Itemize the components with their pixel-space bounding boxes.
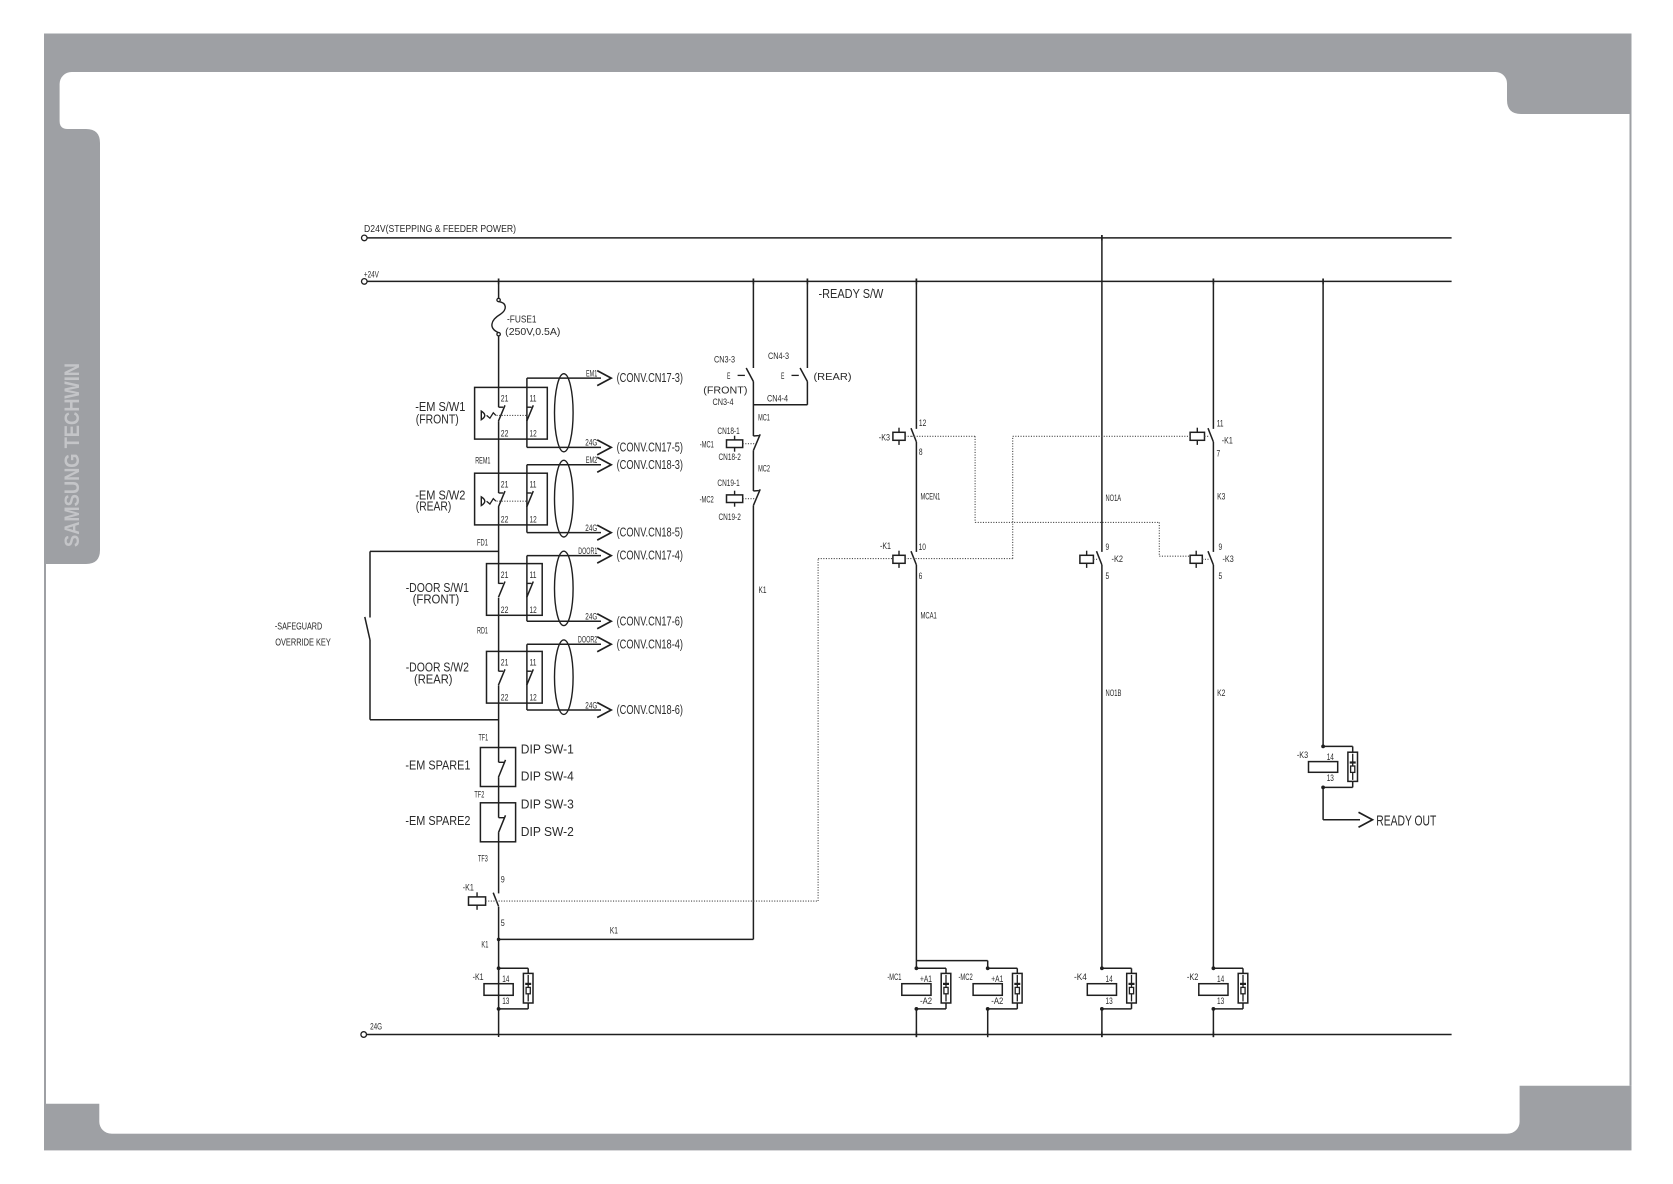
svg-text:MC2: MC2	[758, 464, 770, 475]
wire coil -K2 suppressor branch	[1213, 967, 1243, 969]
svg-text:21: 21	[501, 658, 509, 669]
connector arrow (CONV.CN17-5)	[597, 440, 611, 455]
svg-text:DIP SW-1: DIP SW-1	[521, 742, 574, 756]
svg-text:9: 9	[501, 874, 505, 885]
wire safeguard bracket top	[370, 550, 499, 552]
relay coil -K4	[1100, 966, 1104, 970]
svg-text:TF3: TF3	[478, 853, 488, 864]
svg-text:9: 9	[1219, 542, 1223, 553]
switch EM S/W2 contact 11-12	[527, 492, 532, 494]
node K1 junction to hold-in wire	[497, 938, 501, 942]
page frame top-right tab	[1496, 70, 1632, 114]
svg-text:CN3-4: CN3-4	[713, 397, 734, 408]
svg-text:11: 11	[530, 479, 537, 490]
surge suppressor for -K3	[1348, 752, 1358, 781]
svg-text:14: 14	[1217, 974, 1224, 985]
svg-text:21: 21	[501, 394, 509, 405]
wire main safety chain segments	[498, 421, 500, 493]
wire coil -MC2 suppressor branch	[988, 967, 1018, 969]
svg-text:-K1: -K1	[473, 972, 484, 983]
svg-text:+A1: +A1	[991, 974, 1003, 985]
wire coil -MC1 suppressor branch	[916, 967, 946, 969]
surge suppressor for -MC1	[941, 973, 951, 1003]
dashed linkage K1 contacts	[486, 900, 818, 902]
wire ready front drop	[752, 279, 754, 369]
switch DOOR S/W2 contact 11-12	[527, 670, 532, 672]
svg-text:CN18-1: CN18-1	[717, 426, 739, 437]
svg-text:24G: 24G	[585, 438, 597, 449]
svg-text:-A2: -A2	[920, 996, 932, 1007]
svg-text:CN19-1: CN19-1	[717, 478, 739, 489]
svg-text:12: 12	[530, 693, 537, 704]
svg-text:TF2: TF2	[474, 789, 484, 800]
surge suppressor for -K1	[523, 973, 533, 1003]
connector arrow (CONV.CN18-4)	[597, 637, 611, 652]
svg-text:-K4: -K4	[1074, 972, 1087, 983]
svg-text:12: 12	[919, 418, 926, 429]
svg-text:K1: K1	[759, 585, 767, 596]
svg-text:(CONV.CN18-4): (CONV.CN18-4)	[617, 637, 683, 651]
switch EM S/W1 body box	[475, 387, 548, 439]
switch EM S/W1 operator symbol and link	[481, 411, 485, 420]
wire DOOR S/W1 connector line 24G	[527, 620, 601, 622]
svg-text:CN19-2: CN19-2	[719, 512, 741, 523]
wire ready rear drop	[806, 279, 808, 369]
wire READY column from +24V	[1322, 279, 1324, 747]
surge suppressor for -K2	[1238, 973, 1248, 1003]
svg-text:MCEN1: MCEN1	[921, 491, 941, 502]
safeguard override key switch	[369, 551, 371, 617]
svg-text:-MC2: -MC2	[700, 494, 714, 505]
svg-text:READY OUT: READY OUT	[1376, 813, 1436, 829]
svg-text:21: 21	[501, 570, 509, 581]
wire MC coils to ground rail	[915, 1009, 917, 1037]
svg-text:-K2: -K2	[1112, 554, 1124, 565]
svg-text:DIP SW-3: DIP SW-3	[521, 798, 574, 812]
wire READY OUT	[1322, 787, 1324, 819]
wire K3 column from +24V	[1212, 279, 1214, 429]
svg-text:CN4-3: CN4-3	[768, 351, 789, 362]
switch EM S/W2 body box	[475, 473, 548, 525]
wire coil -K4 suppressor branch	[1102, 967, 1132, 969]
svg-text:5: 5	[1219, 571, 1223, 582]
connector arrow (CONV.CN17-4)	[597, 548, 611, 563]
svg-text:NO1A: NO1A	[1106, 493, 1122, 504]
svg-text:DOOR1: DOOR1	[578, 546, 597, 557]
svg-text:9: 9	[1106, 542, 1110, 553]
relay coil -K3	[1321, 745, 1325, 749]
connector arrow (CONV.CN17-3)	[597, 371, 611, 386]
svg-text:22: 22	[501, 693, 509, 704]
svg-text:-EM SPARE2: -EM SPARE2	[405, 814, 470, 828]
svg-text:12: 12	[530, 605, 537, 616]
wire ready rear join	[753, 404, 807, 406]
svg-text:(FRONT): (FRONT)	[413, 593, 460, 607]
svg-text:13: 13	[1327, 773, 1334, 784]
wire EM S/W2 connector line 24G	[527, 532, 601, 534]
svg-text:DIP SW-4: DIP SW-4	[521, 770, 574, 784]
svg-text:EM1: EM1	[586, 368, 597, 379]
page frame bottom-right tab	[1508, 1086, 1632, 1137]
wire DOOR S/W2 connector line DOOR2	[526, 644, 528, 710]
switch EM S/W2 contact 21-22	[499, 492, 504, 494]
svg-text:DOOR2: DOOR2	[578, 635, 597, 646]
wire MCA1 branch to MC2	[916, 960, 987, 962]
relay coil -MC2	[986, 966, 990, 970]
wire K1 column	[752, 506, 754, 940]
svg-text:(REAR): (REAR)	[814, 371, 852, 383]
dashed linkage K3 contacts	[912, 435, 976, 437]
switch DOOR S/W1 contact 21-22	[499, 582, 504, 584]
svg-text:(CONV.CN18-6): (CONV.CN18-6)	[617, 703, 683, 717]
svg-text:OVERRIDE KEY: OVERRIDE KEY	[275, 637, 331, 648]
wire EM S/W1 connector line 24G	[527, 446, 601, 448]
cable ellipse EM S/W1	[555, 374, 574, 452]
wire safeguard bracket bottom	[370, 719, 499, 721]
connector arrow (CONV.CN18-3)	[597, 457, 611, 472]
wire coil -K1 suppressor branch	[499, 967, 529, 969]
svg-text:NO1B: NO1B	[1106, 688, 1122, 699]
svg-text:K1: K1	[610, 926, 618, 937]
svg-text:5: 5	[1106, 571, 1110, 582]
contactor aux contact MC2 CN19	[753, 490, 759, 492]
connector arrow READY OUT	[1359, 812, 1373, 827]
svg-text:REM1: REM1	[475, 456, 490, 467]
svg-text:11: 11	[1217, 418, 1224, 429]
page frame left tab stem + SAMSUNG tab + left border	[44, 70, 111, 1137]
wire EM S/W2 connector line EM2	[526, 465, 528, 533]
svg-text:-EM SPARE1: -EM SPARE1	[405, 759, 470, 773]
svg-text:-K1: -K1	[1222, 436, 1233, 447]
svg-text:13: 13	[1106, 996, 1113, 1007]
svg-text:24G: 24G	[370, 1021, 382, 1032]
svg-text:-K2: -K2	[1187, 972, 1199, 983]
svg-text:-FUSE1: -FUSE1	[507, 313, 537, 325]
wire DOOR S/W1 connector line DOOR1	[526, 556, 528, 622]
svg-text:-READY S/W: -READY S/W	[819, 287, 884, 301]
svg-text:MCA1: MCA1	[921, 611, 937, 622]
svg-text:8: 8	[919, 447, 923, 458]
svg-text:CN3-3: CN3-3	[714, 355, 735, 366]
svg-text:-K1: -K1	[463, 883, 474, 894]
svg-text:21: 21	[501, 479, 509, 490]
switch EM S/W1 contact 21-22	[499, 406, 504, 408]
svg-text:13: 13	[502, 996, 509, 1007]
switch DOOR S/W1 body box	[487, 564, 543, 616]
svg-text:22: 22	[501, 605, 509, 616]
svg-text:24G: 24G	[585, 700, 597, 711]
svg-text:7: 7	[1217, 448, 1221, 459]
svg-text:-K3: -K3	[1223, 554, 1234, 565]
wire coil -K3 suppressor branch	[1323, 745, 1353, 747]
svg-text:6: 6	[919, 571, 923, 582]
wire EM S/W1 connector line EM1	[526, 378, 528, 447]
svg-text:(REAR): (REAR)	[414, 673, 453, 687]
svg-text:(CONV.CN17-4): (CONV.CN17-4)	[617, 549, 683, 563]
svg-text:24G: 24G	[585, 523, 597, 534]
svg-text:(FRONT): (FRONT)	[416, 412, 459, 426]
relay coil -MC1	[915, 966, 919, 970]
svg-text:14: 14	[1106, 974, 1113, 985]
svg-text:RD1: RD1	[477, 625, 488, 636]
svg-text:(REAR): (REAR)	[416, 500, 452, 514]
svg-text:24G: 24G	[585, 612, 597, 623]
svg-text:12: 12	[530, 429, 537, 440]
svg-text:E: E	[781, 371, 784, 382]
svg-text:+A1: +A1	[920, 974, 932, 985]
svg-text:D24V(STEPPING & FEEDER POWER): D24V(STEPPING & FEEDER POWER)	[364, 223, 516, 235]
switch DOOR S/W2 contact 21-22	[499, 670, 504, 672]
svg-text:-K3: -K3	[879, 432, 890, 443]
surge suppressor for -K4	[1127, 973, 1137, 1003]
svg-text:CN4-4: CN4-4	[767, 393, 788, 404]
svg-text:5: 5	[501, 918, 505, 929]
svg-text:(250V,0.5A): (250V,0.5A)	[505, 326, 560, 338]
cable ellipse EM S/W2	[555, 460, 574, 537]
svg-text:MC1: MC1	[758, 412, 770, 423]
connector arrow (CONV.CN17-6)	[597, 614, 611, 629]
svg-text:CN18-2: CN18-2	[719, 452, 741, 463]
svg-text:(FRONT): (FRONT)	[703, 384, 747, 396]
wire MCEN column from +24V	[915, 279, 917, 429]
cable ellipse DOOR S/W2	[555, 640, 574, 715]
svg-text:(CONV.CN17-6): (CONV.CN17-6)	[617, 614, 683, 628]
wire junction ticks on rails	[498, 279, 500, 285]
svg-text:TF1: TF1	[479, 733, 489, 744]
svg-text:K2: K2	[1217, 688, 1225, 699]
contactor aux contact MC1 CN18	[753, 435, 759, 437]
svg-text:SAMSUNG TECHWIN: SAMSUNG TECHWIN	[61, 363, 84, 547]
wire +24V to fuse	[498, 279, 500, 299]
svg-text:-SAFEGUARD: -SAFEGUARD	[275, 622, 322, 633]
svg-text:K3: K3	[1217, 491, 1225, 502]
surge suppressor for -MC2	[1013, 973, 1023, 1003]
switch EM S/W1 contact 11-12	[527, 406, 532, 408]
wire fuse to EM S/W1	[498, 336, 500, 407]
svg-text:-MC1: -MC1	[700, 439, 714, 450]
svg-text:14: 14	[1327, 752, 1334, 763]
connector arrow (CONV.CN18-6)	[597, 703, 611, 718]
cable ellipse DOOR S/W1	[555, 551, 574, 625]
switch DOOR S/W1 contact 11-12	[527, 582, 532, 584]
fuse FUSE1	[497, 298, 500, 301]
svg-text:14: 14	[502, 974, 509, 985]
connector arrow (CONV.CN18-5)	[597, 525, 611, 540]
svg-text:11: 11	[530, 658, 537, 669]
switch EM S/W2 operator symbol and link	[481, 497, 485, 506]
svg-text:(CONV.CN17-5): (CONV.CN17-5)	[617, 441, 683, 455]
svg-text:E: E	[727, 371, 730, 382]
relay coil -K2	[1212, 966, 1216, 970]
svg-text:-MC2: -MC2	[959, 972, 973, 983]
svg-text:-MC1: -MC1	[887, 972, 901, 983]
svg-text:-A2: -A2	[991, 996, 1003, 1007]
svg-text:22: 22	[501, 429, 509, 440]
wire NO1A column from D24V	[1101, 235, 1103, 552]
page frame top bar	[44, 34, 1632, 73]
svg-text:EM2: EM2	[586, 455, 598, 466]
svg-text:DIP SW-2: DIP SW-2	[521, 825, 574, 839]
svg-text:-K1: -K1	[880, 541, 891, 552]
svg-text:FD1: FD1	[477, 537, 488, 548]
wire DOOR S/W2 connector line 24G	[527, 709, 601, 711]
page frame bottom bar	[44, 1134, 1632, 1151]
svg-text:22: 22	[501, 514, 509, 525]
page frame right border line	[1630, 114, 1632, 1086]
svg-text:12: 12	[530, 514, 537, 525]
svg-text:10: 10	[919, 542, 926, 553]
svg-text:(CONV.CN17-3): (CONV.CN17-3)	[617, 371, 683, 385]
svg-text:(CONV.CN18-3): (CONV.CN18-3)	[617, 458, 683, 472]
svg-text:11: 11	[530, 394, 537, 405]
svg-text:(CONV.CN18-5): (CONV.CN18-5)	[617, 526, 683, 540]
svg-text:11: 11	[530, 570, 537, 581]
svg-text:-K3: -K3	[1297, 750, 1308, 761]
svg-text:13: 13	[1217, 996, 1224, 1007]
relay coil -K1	[497, 966, 501, 970]
switch DOOR S/W2 body box	[487, 651, 543, 703]
svg-text:K1: K1	[481, 940, 488, 951]
